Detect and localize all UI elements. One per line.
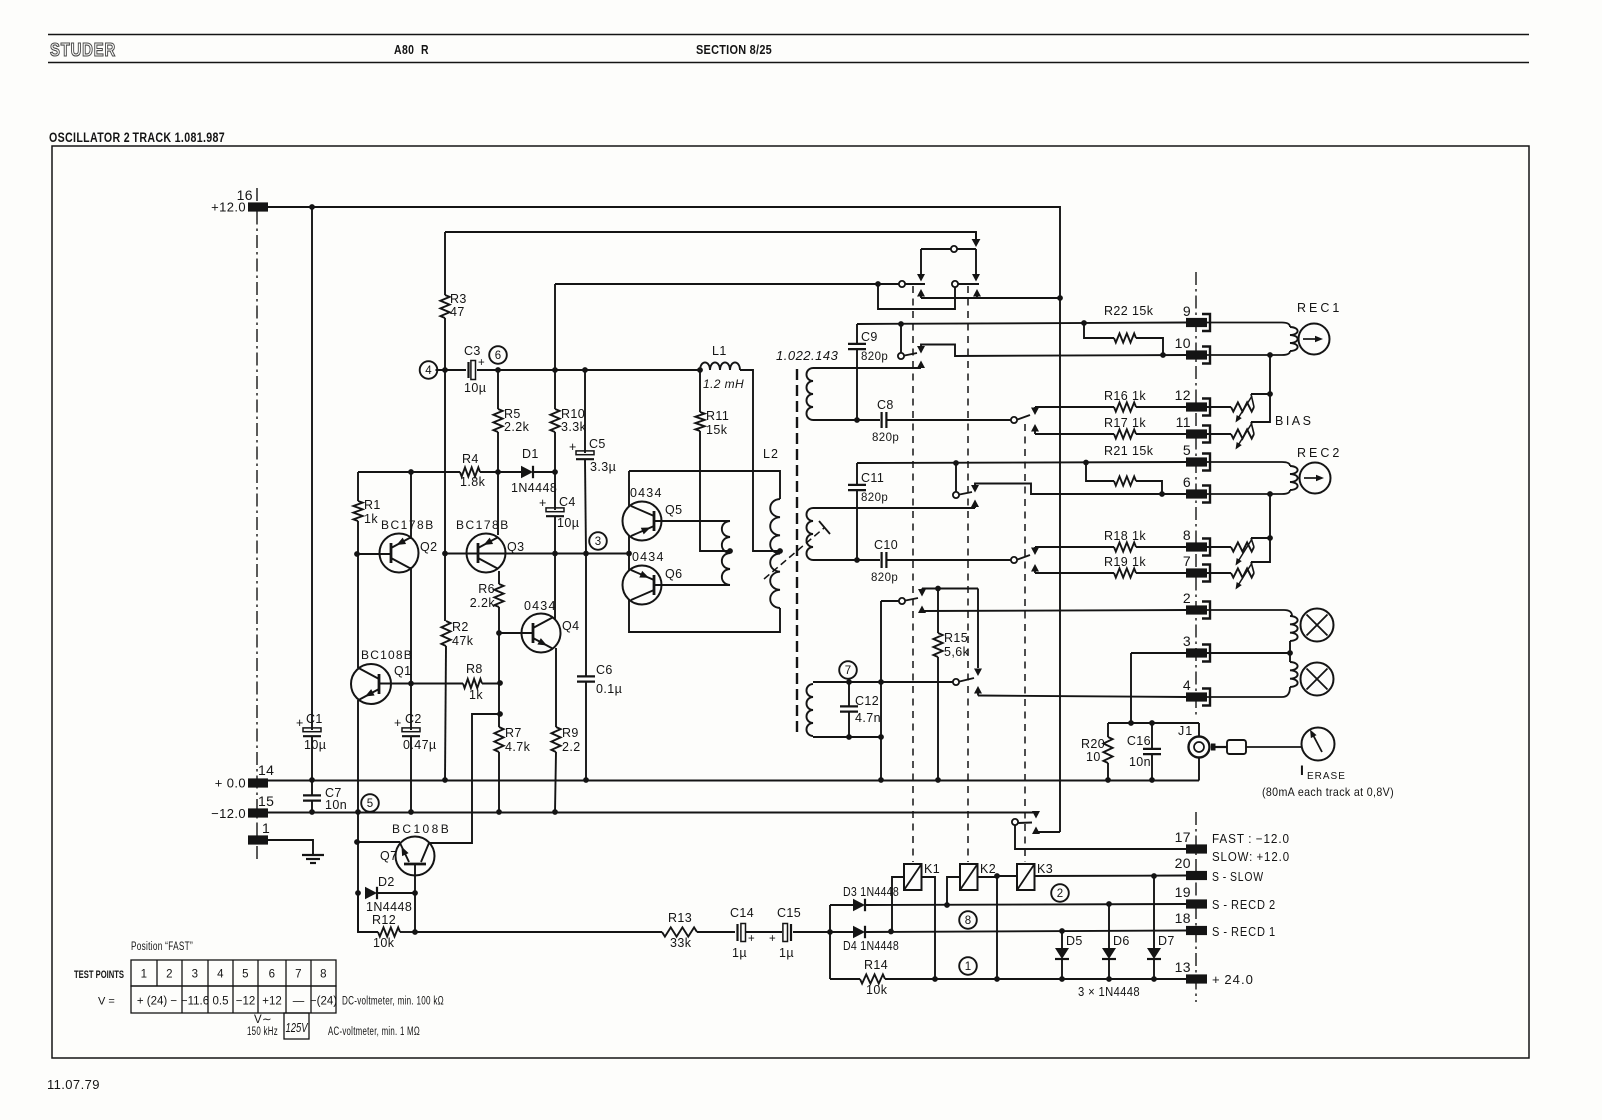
transistor Q7 BC108B [396, 837, 435, 894]
label 3x1N4448 [1078, 985, 1140, 999]
wire Q2 base [357, 553, 390, 555]
label L2 [763, 447, 779, 461]
label REC2 [1297, 446, 1342, 460]
wire C10 to contact [887, 559, 1011, 561]
svg-text:−12.0: −12.0 [211, 806, 246, 821]
junction C11/C10 [854, 557, 860, 563]
transformer tuning arrow [764, 521, 830, 579]
svg-text:4: 4 [217, 969, 224, 981]
junction Q7 collector tap [497, 711, 503, 717]
svg-text:+: + [769, 933, 776, 945]
relay K2 [960, 862, 996, 890]
label S-RECD2 [1212, 898, 1276, 912]
svg-text:V∼: V∼ [254, 1014, 272, 1026]
node 5 [361, 794, 379, 812]
svg-text:−11.6: −11.6 [181, 996, 209, 1008]
wire Q5 collector [628, 471, 630, 507]
svg-text:+: + [539, 496, 547, 510]
svg-text:R4: R4 [462, 452, 479, 466]
resistor R12 [372, 913, 415, 950]
svg-text:2.2: 2.2 [562, 740, 581, 754]
resistor R7 [494, 726, 530, 754]
wire K2 left lead [947, 877, 960, 905]
junction Q7 emitter node [354, 839, 360, 845]
svg-text:3: 3 [192, 969, 199, 981]
svg-text:1: 1 [141, 969, 148, 981]
resistor R19 [1104, 555, 1186, 578]
erase head coil 2 [1290, 653, 1298, 687]
jack J1 [1178, 724, 1210, 758]
svg-text:1: 1 [965, 961, 971, 973]
wire 0V rail [268, 780, 1199, 782]
terminal 6 [1183, 474, 1210, 503]
relay K3 actuation dashes [1024, 424, 1026, 862]
svg-text:10: 10 [1175, 335, 1191, 351]
wire R12 left lead [358, 893, 378, 932]
capacitor C5 [569, 437, 616, 474]
wire C14 to C15 [746, 931, 782, 933]
junction erase drop/node7 [878, 679, 884, 685]
terminal 16 [237, 187, 268, 212]
svg-text:BC108B: BC108B [392, 822, 451, 836]
wire R5 to Q3 [497, 432, 499, 535]
svg-text:2: 2 [166, 969, 173, 981]
junction C16/0V [1149, 777, 1155, 783]
svg-text:C8: C8 [877, 398, 894, 412]
wire J1 top row [1108, 723, 1199, 737]
label FAST [1212, 832, 1290, 846]
svg-text:47: 47 [450, 305, 465, 319]
svg-text:S - SLOW: S - SLOW [1212, 870, 1264, 884]
diode D5 [1055, 931, 1083, 979]
wire C1 branch [311, 207, 313, 730]
junction D7/+24 [1151, 976, 1157, 982]
box 125V [284, 1013, 309, 1039]
contact top-a link [917, 249, 925, 282]
label Q6 [632, 550, 682, 581]
svg-text:13: 13 [1175, 959, 1191, 975]
junction +12/contact feed [1057, 295, 1063, 301]
svg-text:1µ: 1µ [779, 946, 794, 960]
junction REC1/BIAS [1267, 352, 1273, 358]
label Q5 [630, 486, 682, 517]
junction D5 top [1059, 928, 1065, 934]
svg-text:D5: D5 [1066, 934, 1083, 948]
contact K3-a common [1011, 415, 1030, 423]
svg-text:D2: D2 [378, 875, 395, 889]
junction C16 top [1149, 720, 1155, 726]
svg-text:(80mA each track at 0,8V): (80mA each track at 0,8V) [1262, 785, 1394, 799]
wire R10 to D1 node [554, 432, 556, 472]
relay K1 actuation dashes [912, 286, 914, 862]
svg-text:D7: D7 [1158, 934, 1175, 948]
svg-text:R1: R1 [364, 498, 381, 512]
wire R4 row [358, 471, 521, 473]
terminal 18 [1175, 910, 1207, 935]
svg-text:3: 3 [1183, 633, 1191, 649]
doc title A80 R [394, 43, 429, 57]
svg-text:3.3µ: 3.3µ [590, 460, 616, 474]
svg-text:SLOW: +12.0: SLOW: +12.0 [1212, 850, 1290, 864]
wire Q1 base row [379, 683, 463, 685]
capacitor C7 [303, 786, 347, 812]
wire R4 left to R1 [357, 472, 359, 501]
record head coil REC2 [1290, 466, 1298, 490]
wire sec2 bottom lead [813, 559, 880, 561]
contact top-a common [921, 246, 976, 252]
svg-text:DC-voltmeter, min. 100 kΩ: DC-voltmeter, min. 100 kΩ [342, 996, 444, 1008]
wire terminal3 right [1207, 652, 1290, 654]
svg-text:10µ: 10µ [557, 516, 579, 530]
inductor L2 feedback winding [722, 521, 733, 585]
label TEST POINTS [74, 969, 124, 981]
junction R8 right [497, 680, 503, 686]
svg-text:R5: R5 [504, 407, 521, 421]
junction C9/C8 [854, 417, 860, 423]
record head coil REC1 [1290, 327, 1298, 351]
junction +12/C1 [309, 204, 315, 210]
contact erase-a NO arrow [918, 606, 926, 614]
wire Q4 emitter to R9 [555, 648, 557, 727]
svg-text:BC178B: BC178B [381, 518, 435, 532]
erase head 1 [1301, 609, 1334, 642]
svg-text:Q7: Q7 [380, 849, 397, 863]
junction D3/D4 split [827, 929, 833, 935]
svg-text:7: 7 [295, 969, 302, 981]
resistor R22 [1084, 304, 1163, 355]
svg-text:C3: C3 [464, 344, 481, 358]
wire top feed y232 [445, 232, 976, 239]
svg-text:R14: R14 [864, 958, 888, 972]
svg-text:Q2: Q2 [420, 540, 437, 554]
trimmer bias 11 [1207, 422, 1254, 450]
svg-text:15k: 15k [706, 423, 728, 437]
node 3 [589, 532, 607, 550]
svg-text:20: 20 [1175, 855, 1191, 871]
svg-text:5: 5 [1183, 442, 1191, 458]
wire Q1 emitter down [357, 700, 359, 933]
svg-text:820p: 820p [861, 492, 888, 504]
svg-text:K1: K1 [924, 862, 940, 876]
transistor Q6 [623, 566, 662, 605]
junction K2K3/S-SLOW [994, 873, 1000, 879]
svg-text:1.2 mH: 1.2 mH [703, 377, 744, 391]
wire R7 to -12 [498, 752, 500, 812]
wire contact row3 left [899, 283, 926, 285]
svg-text:AC-voltmeter, min. 1 MΩ: AC-voltmeter, min. 1 MΩ [328, 1026, 420, 1038]
test point table [131, 960, 337, 1013]
svg-text:C16: C16 [1127, 734, 1151, 748]
terminal 19 [1175, 884, 1207, 909]
wire Q4 base [499, 632, 533, 634]
junction Q56/node3 [626, 551, 632, 557]
svg-text:17: 17 [1175, 829, 1191, 845]
wire K1 left lead [892, 877, 904, 932]
resistor R13 [662, 911, 697, 950]
label SLOW [1212, 850, 1290, 864]
svg-text:2: 2 [1183, 590, 1191, 606]
svg-text:5,6k: 5,6k [944, 645, 970, 659]
node 6 [489, 346, 507, 364]
svg-text:J1: J1 [1178, 724, 1193, 738]
wire terminal2 row [922, 610, 1186, 611]
transistor Q2 [380, 534, 419, 573]
contact K1-a NO arrow [917, 361, 925, 369]
label DC voltmeter [342, 996, 444, 1008]
wire Q1 collector [357, 554, 359, 668]
wire Q2 collector down [410, 567, 412, 812]
svg-text:14: 14 [258, 762, 274, 778]
junction D2 anode node [355, 890, 361, 896]
junction R4/Q2 [408, 469, 414, 475]
wire C9 leads [856, 325, 858, 420]
label Q7 [380, 822, 451, 863]
wire K2 right lead [978, 876, 998, 878]
wire REC2 bottom [1207, 490, 1290, 494]
svg-text:R3: R3 [450, 292, 467, 306]
svg-text:18: 18 [1175, 910, 1191, 926]
label transformer part number [776, 348, 839, 363]
contact top-c NC arrow [972, 249, 980, 282]
svg-text:FAST : −12.0: FAST : −12.0 [1212, 832, 1290, 846]
label AC voltmeter [328, 1026, 420, 1038]
wire erase common drop [880, 601, 882, 780]
capacitor C6 [577, 663, 622, 696]
contact top-c NO arrow [973, 289, 981, 298]
wire sec1 bottom lead [813, 419, 880, 421]
svg-text:K3: K3 [1037, 862, 1053, 876]
capacitor C11 [848, 471, 888, 504]
svg-text:R16 1k: R16 1k [1104, 389, 1146, 403]
wire Q7 emitter [357, 841, 400, 843]
diode D6 [1102, 904, 1130, 979]
resistor R10 [550, 407, 586, 434]
junction C1/0V [309, 777, 315, 783]
contact K3-c NO arrow [1032, 827, 1060, 835]
dash-dot terminal line right upper [1195, 272, 1197, 718]
svg-text:820p: 820p [872, 432, 899, 444]
node 4 [420, 361, 438, 379]
svg-text:R7: R7 [505, 726, 522, 740]
junction R21 right [1159, 491, 1165, 497]
resistor R15 [933, 589, 969, 660]
svg-text:125V: 125V [286, 1020, 309, 1035]
junction C5 top [582, 367, 588, 373]
resistor R11 [695, 370, 729, 437]
label Q2 [381, 518, 437, 554]
inductor L2 winding [770, 499, 783, 608]
relay K3 [1017, 862, 1053, 890]
drawing date [47, 1077, 100, 1092]
junction contact5 tap [953, 460, 959, 466]
svg-text:820p: 820p [861, 351, 888, 363]
svg-text:12: 12 [1175, 387, 1191, 403]
wire C7 leads [311, 780, 313, 812]
svg-text:REC2: REC2 [1297, 446, 1342, 460]
junction D6 top [1106, 901, 1112, 907]
erase head 2 [1301, 663, 1334, 696]
wire REC2 top [1207, 462, 1290, 466]
resistor R5 [493, 370, 529, 434]
diode D4 [843, 926, 899, 953]
wire R17 row [1035, 433, 1114, 435]
svg-text:5: 5 [367, 798, 373, 810]
wire R12 to R13 [415, 931, 662, 933]
trimmer bias 12 [1207, 394, 1254, 423]
label REC1 [1297, 301, 1342, 315]
wire R15 row [922, 588, 978, 590]
transistor Q1 [351, 664, 391, 704]
contact erase-a common [881, 598, 918, 604]
svg-text:10k: 10k [373, 936, 395, 950]
wire C8 to contact [887, 419, 1011, 421]
svg-text:10n: 10n [1129, 755, 1151, 769]
svg-text:Q3: Q3 [507, 540, 524, 554]
svg-text:8: 8 [1183, 527, 1191, 543]
svg-text:—: — [293, 996, 305, 1008]
contact top-a arrow [972, 232, 981, 247]
junction R5/R4 [495, 469, 501, 475]
terminal 17 [1175, 829, 1207, 854]
terminal 3 [1183, 633, 1210, 662]
junction Q1e/-12 [355, 809, 361, 815]
junction erase mid [1287, 650, 1293, 656]
node 1 [959, 957, 977, 975]
dash-dot terminal line left [256, 188, 258, 862]
contact K1-a common [898, 324, 917, 359]
contact K2-b NC arrow [971, 484, 1186, 495]
wire Q7 base down [414, 893, 416, 932]
junction R22 right [1160, 352, 1166, 358]
terminal 9 [1183, 303, 1210, 331]
wire R3 to Q3 base [445, 318, 446, 780]
contact top-b common [899, 281, 905, 287]
junction R15/0V [935, 777, 941, 783]
wire C15 to D node [793, 931, 853, 933]
wire Q5Q6 frame top [629, 471, 780, 499]
junction R20/0V [1105, 777, 1111, 783]
wire sec1 top lead [813, 367, 921, 369]
resistor R20 [1081, 723, 1113, 780]
contact erase-a NC arrow [918, 589, 926, 597]
svg-text:R19 1k: R19 1k [1104, 555, 1146, 569]
capacitor C9 [848, 330, 888, 363]
wire node3 row [445, 553, 629, 555]
wire +12 contact bus [921, 297, 1060, 299]
svg-text:R11: R11 [706, 409, 729, 423]
svg-text:4.7n: 4.7n [855, 711, 881, 725]
svg-text:1.022.143: 1.022.143 [776, 348, 839, 363]
svg-text:R2: R2 [452, 620, 469, 634]
junction Q3 base [442, 551, 448, 557]
label Q4 [524, 599, 579, 633]
svg-text:47k: 47k [452, 634, 474, 648]
transistor Q4 [522, 614, 561, 653]
svg-text:C10: C10 [874, 538, 898, 552]
junction terminal3/J1 node [1128, 720, 1134, 726]
svg-text:L1: L1 [712, 344, 727, 358]
transistor Q5 [623, 502, 662, 541]
trimmer bias 8 [1207, 538, 1254, 566]
junction D5/+24 [1059, 976, 1065, 982]
terminal 4 [1183, 677, 1210, 706]
svg-text:−(24): −(24) [310, 996, 337, 1008]
wire Q6 base [654, 584, 730, 586]
capacitor C14 [730, 906, 755, 960]
svg-text:+12: +12 [262, 996, 282, 1008]
junction R21 left [1083, 460, 1089, 466]
junction row3 feed [875, 281, 881, 287]
svg-text:V =: V = [98, 996, 115, 1008]
wire +24 row [885, 978, 1186, 980]
wire R15 to 0V [937, 657, 939, 780]
junction REC2/BIAS [1267, 491, 1273, 497]
terminal 15 [248, 793, 274, 818]
label I erase [1300, 762, 1346, 782]
terminal 1 [248, 820, 270, 845]
junction L1 left [697, 367, 703, 373]
svg-text:C12: C12 [855, 694, 879, 708]
wire R18 row [1035, 546, 1114, 548]
svg-text:1N4448: 1N4448 [511, 481, 557, 495]
junction node6 [495, 367, 501, 373]
resistor R21 [1086, 444, 1162, 494]
wire contact feed y284 [555, 284, 899, 409]
doc section label [696, 43, 772, 57]
svg-text:10k: 10k [866, 983, 888, 997]
resistor R2 [441, 620, 473, 648]
transformer secondary winding 2 [806, 508, 813, 560]
junction Q2c/Q1base [408, 681, 414, 687]
wire C5 leads [585, 370, 586, 554]
diode D2 [365, 875, 415, 914]
page header rule top [48, 34, 1529, 36]
contact erase-b NO arrow [974, 686, 982, 696]
wire terminal3 left [1131, 653, 1186, 723]
transistor Q3 [467, 534, 506, 573]
diode D3 [843, 885, 899, 911]
junction R12 right [412, 929, 418, 935]
wire Q5Q6 emitters [628, 535, 630, 571]
wire J1 bottom [1198, 758, 1200, 781]
wire Q7 collector [429, 714, 500, 843]
svg-text:6: 6 [269, 969, 276, 981]
erase head coil 1 [1290, 616, 1298, 641]
meter REC1 [1299, 324, 1330, 355]
svg-text:19: 19 [1175, 884, 1191, 900]
label Q1 [361, 648, 413, 678]
svg-text:33k: 33k [670, 936, 692, 950]
wire S-SLOW row [1035, 875, 1187, 878]
wire R14 branch [830, 932, 860, 979]
svg-text:0.47µ: 0.47µ [403, 738, 437, 752]
junction R10 top [552, 367, 558, 373]
junction R15 top [935, 586, 941, 592]
svg-text:D3 1N4448: D3 1N4448 [843, 885, 899, 899]
svg-text:−12: −12 [236, 996, 256, 1008]
terminal 13 [1175, 959, 1207, 984]
node 8 [959, 911, 977, 929]
junction C5/node3 [583, 551, 589, 557]
svg-text:R20: R20 [1081, 737, 1105, 751]
svg-text:3 × 1N4448: 3 × 1N4448 [1078, 985, 1140, 999]
terminal 2 [1183, 590, 1210, 619]
svg-text:A80 R: A80 R [394, 43, 429, 57]
junction Q4 base tap [496, 630, 502, 636]
terminal 14 [248, 762, 274, 788]
contact K3-a NO arrow [1031, 424, 1039, 434]
wire REC1 bottom [1207, 351, 1290, 355]
